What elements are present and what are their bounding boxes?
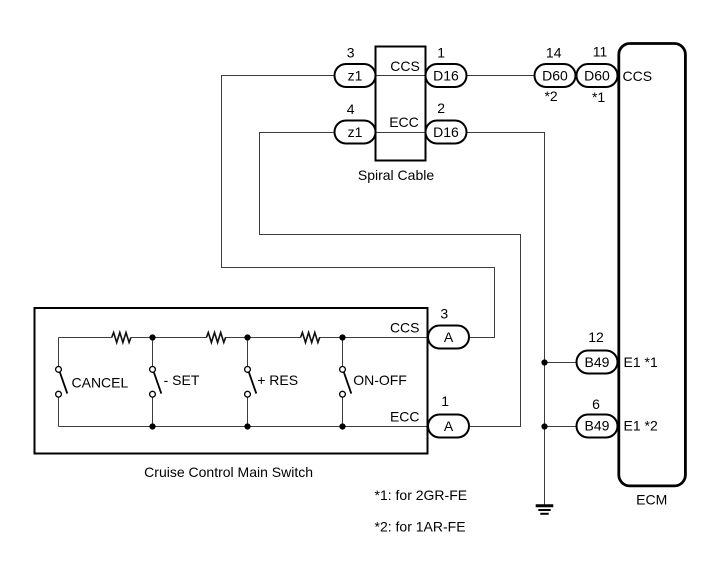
svg-text:3: 3 (347, 44, 355, 60)
svg-text:Spiral Cable: Spiral Cable (358, 167, 434, 183)
svg-text:CCS: CCS (623, 68, 653, 84)
svg-text:12: 12 (588, 329, 604, 345)
svg-text:D60: D60 (584, 68, 610, 84)
svg-text:*2: for 1AR-FE: *2: for 1AR-FE (375, 519, 466, 535)
svg-text:+ RES: + RES (257, 372, 298, 388)
svg-text:11: 11 (593, 43, 608, 59)
svg-text:z1: z1 (348, 124, 363, 140)
svg-text:4: 4 (347, 101, 355, 117)
svg-text:*1: *1 (592, 89, 605, 105)
svg-text:ECM: ECM (636, 492, 667, 508)
svg-text:1: 1 (437, 44, 445, 60)
svg-text:- SET: - SET (164, 372, 200, 388)
svg-text:Cruise Control Main Switch: Cruise Control Main Switch (144, 464, 313, 480)
svg-text:ECC: ECC (390, 409, 420, 425)
svg-text:ON-OFF: ON-OFF (353, 372, 407, 388)
svg-text:E1 *2: E1 *2 (624, 418, 658, 434)
svg-text:CCS: CCS (390, 58, 420, 74)
svg-text:3: 3 (440, 306, 448, 322)
svg-text:D60: D60 (542, 68, 568, 84)
svg-text:6: 6 (592, 396, 600, 412)
svg-text:E1 *1: E1 *1 (624, 354, 658, 370)
svg-text:D16: D16 (433, 124, 459, 140)
svg-text:CANCEL: CANCEL (72, 374, 129, 390)
svg-text:1: 1 (441, 393, 449, 409)
svg-text:B49: B49 (585, 354, 610, 370)
svg-text:2: 2 (437, 100, 445, 116)
svg-text:A: A (444, 418, 454, 434)
svg-text:ECC: ECC (389, 114, 419, 130)
svg-text:z1: z1 (348, 68, 363, 84)
svg-text:CCS: CCS (390, 319, 420, 335)
svg-text:*1: for 2GR-FE: *1: for 2GR-FE (375, 487, 468, 503)
svg-text:*2: *2 (544, 88, 557, 104)
svg-text:14: 14 (546, 44, 562, 60)
svg-text:A: A (444, 329, 454, 345)
svg-text:D16: D16 (433, 68, 459, 84)
svg-text:B49: B49 (585, 418, 610, 434)
